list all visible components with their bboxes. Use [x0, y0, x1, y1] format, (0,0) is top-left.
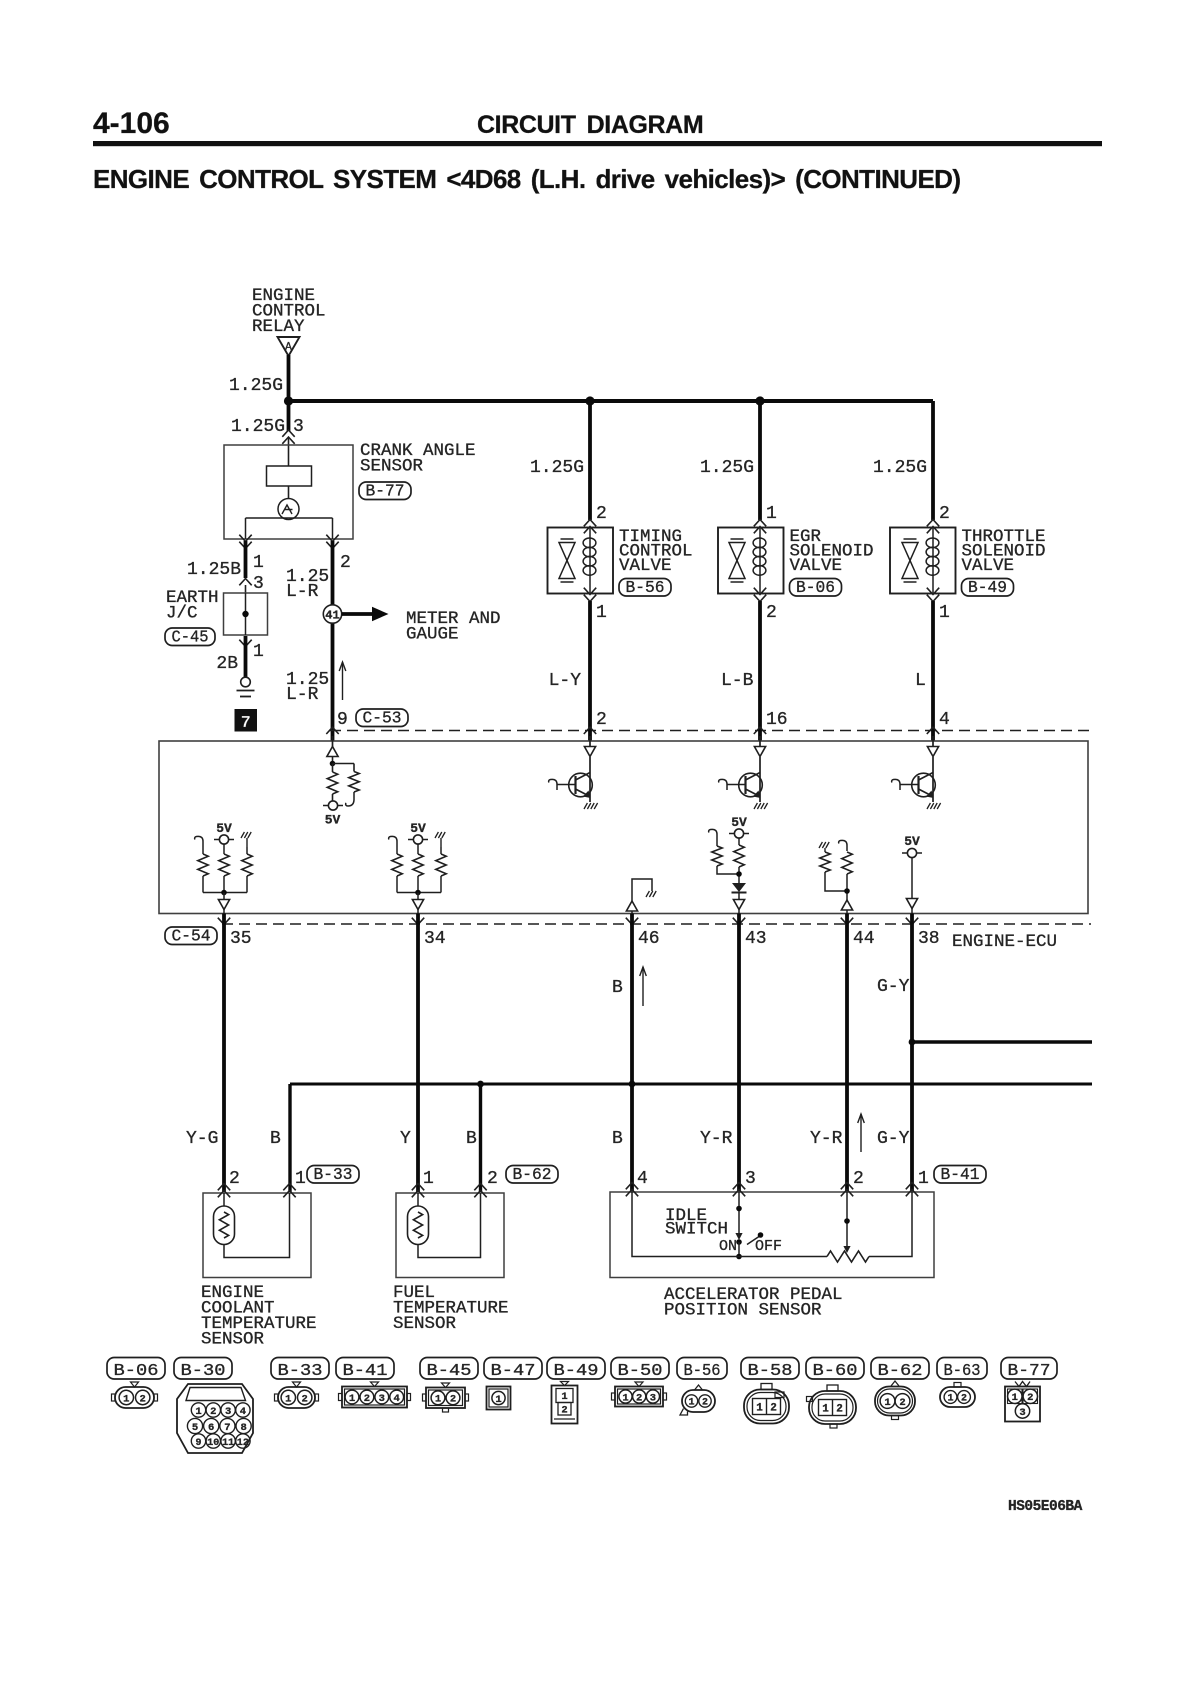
wire B to coolant sensor pin1: [288, 1084, 291, 1192]
svg-text:1: 1: [423, 1169, 434, 1189]
connector label B-56: [619, 579, 671, 597]
svg-text:B-30: B-30: [181, 1361, 226, 1380]
connector boundary C-53 dashed: [330, 730, 1091, 732]
wire crank sensor pin1 to earth J/C: [239, 542, 251, 549]
ECU pin 44 network: [819, 842, 822, 848]
wire ECU pin34 to fuel sensor pin1 Y: [416, 914, 420, 1193]
wiper: [846, 1192, 848, 1246]
connector boundary C-54 dashed: [222, 923, 1091, 925]
svg-text:10: 10: [207, 1438, 219, 1449]
svg-text:1: 1: [688, 1398, 694, 1409]
connector label B-41: [934, 1166, 986, 1184]
svg-text:2: 2: [596, 710, 607, 730]
wire B to fuel sensor pin2: [479, 1084, 482, 1192]
svg-text:3: 3: [1019, 1407, 1025, 1419]
svg-text:B-06: B-06: [796, 578, 835, 597]
numbered marker 7: [235, 709, 258, 732]
transistor Q3: [932, 757, 934, 802]
svg-text:VALVE: VALVE: [619, 556, 672, 576]
svg-text:5: 5: [192, 1422, 198, 1434]
svg-text:4: 4: [240, 1406, 246, 1418]
svg-text:2: 2: [229, 1169, 240, 1189]
svg-text:1: 1: [918, 1169, 929, 1189]
connector B-30: [174, 1358, 232, 1380]
svg-text:1: 1: [756, 1403, 763, 1415]
svg-text:4-106: 4-106: [93, 107, 170, 140]
wire THROTTLE valve to ECU pin 4: [931, 601, 935, 741]
svg-text:1: 1: [822, 1404, 829, 1416]
svg-text:5V: 5V: [216, 821, 232, 836]
svg-text:1.25G: 1.25G: [700, 458, 754, 478]
power bus wire: [287, 399, 933, 403]
svg-text:1: 1: [947, 1394, 953, 1405]
svg-text:1: 1: [349, 1393, 355, 1405]
svg-text:B: B: [466, 1129, 477, 1149]
connector label B-62: [506, 1166, 558, 1184]
svg-text:SENSOR: SENSOR: [360, 457, 424, 477]
svg-text:VALVE: VALVE: [790, 556, 843, 576]
wire crank sensor pin2 to ECU pin9: [326, 542, 338, 549]
connector chevrons: [927, 520, 939, 527]
svg-text:35: 35: [230, 929, 252, 949]
svg-text:GAUGE: GAUGE: [406, 625, 459, 645]
arrow up beside pin44 wire: [860, 1114, 862, 1152]
connector label B-06: [790, 579, 842, 597]
junction: [585, 396, 594, 405]
arrow up: [342, 662, 344, 700]
svg-text:VALVE: VALVE: [962, 556, 1015, 576]
svg-text:2: 2: [210, 1406, 216, 1418]
svg-text:4: 4: [394, 1393, 400, 1405]
svg-text:2: 2: [487, 1169, 498, 1189]
svg-text:B-06: B-06: [114, 1361, 159, 1380]
connector B-58: [741, 1358, 799, 1380]
ECU pin9 pull-up network: [327, 747, 338, 757]
svg-text:4: 4: [939, 710, 950, 730]
svg-text:B-49: B-49: [554, 1361, 599, 1380]
svg-text:B-45: B-45: [427, 1361, 472, 1380]
connector B-50: [611, 1358, 669, 1380]
resistors: [195, 836, 203, 847]
svg-text:OFF: OFF: [755, 1238, 782, 1255]
svg-text:44: 44: [853, 929, 875, 949]
svg-text:Y-R: Y-R: [810, 1129, 843, 1149]
connector B-33: [271, 1358, 329, 1380]
svg-text:1: 1: [195, 1406, 201, 1418]
svg-text:B: B: [612, 978, 623, 998]
wire into ECU from valve: [754, 747, 765, 757]
engine ECU box: [159, 741, 1088, 914]
wire ECU pin46 to accel sensor pin4 B: [630, 914, 634, 1193]
svg-text:4: 4: [637, 1169, 648, 1189]
junction: [755, 396, 764, 405]
ECU pin 46: [626, 918, 638, 925]
svg-text:3: 3: [745, 1169, 756, 1189]
svg-text:1.25G: 1.25G: [873, 458, 927, 478]
svg-text:Y-R: Y-R: [700, 1129, 733, 1149]
svg-text:1.25G: 1.25G: [231, 417, 285, 437]
svg-text:2: 2: [836, 1404, 843, 1416]
header rule: [93, 141, 1102, 146]
wire into ECU from valve: [584, 747, 595, 757]
svg-text:B-41: B-41: [941, 1165, 980, 1184]
junction: [284, 396, 293, 405]
connector B-49: [547, 1358, 605, 1380]
svg-text:2B: 2B: [216, 654, 238, 674]
ECU pin 43: [733, 918, 745, 925]
svg-text:C-45: C-45: [172, 627, 209, 646]
svg-text:1: 1: [435, 1394, 441, 1406]
connector chevrons: [584, 595, 596, 602]
ECU pin 46 ground stub: [632, 879, 652, 901]
svg-text:34: 34: [424, 929, 446, 949]
svg-text:B: B: [612, 1129, 623, 1149]
svg-text:3: 3: [225, 1406, 231, 1418]
svg-text:7: 7: [224, 1422, 230, 1434]
connector B-56: [677, 1358, 727, 1380]
svg-text:1: 1: [596, 603, 607, 623]
svg-text:L-B: L-B: [721, 671, 754, 691]
svg-text:6: 6: [208, 1422, 214, 1434]
svg-text:38: 38: [918, 929, 940, 949]
resistors: [389, 836, 397, 847]
svg-text:1: 1: [1012, 1392, 1018, 1404]
connector label B-49: [962, 579, 1014, 597]
connector chevrons: [754, 595, 766, 602]
svg-text:1: 1: [285, 1393, 291, 1405]
ECU pin 44: [841, 918, 853, 925]
wire into ECU from valve: [927, 747, 938, 757]
svg-text:5V: 5V: [731, 815, 747, 830]
svg-text:B-41: B-41: [343, 1361, 388, 1380]
ECU pin 34: [412, 918, 424, 925]
connector B-63: [937, 1358, 987, 1380]
connector chevrons: [584, 520, 596, 527]
connector B-41: [336, 1358, 394, 1380]
svg-text:1: 1: [123, 1393, 129, 1405]
svg-text:SWITCH: SWITCH: [665, 1220, 728, 1240]
svg-text:5V: 5V: [410, 821, 426, 836]
svg-text:C-54: C-54: [172, 926, 211, 945]
svg-text:SENSOR: SENSOR: [201, 1330, 265, 1350]
node 41 meter and gauge takeoff: [323, 605, 341, 623]
svg-text:9: 9: [195, 1438, 201, 1449]
wire TIMING valve to ECU pin 2: [588, 601, 592, 741]
svg-text:9: 9: [337, 710, 348, 730]
svg-text:2: 2: [770, 1403, 777, 1415]
potentiometer track: [632, 1192, 827, 1257]
svg-text:2: 2: [636, 1392, 642, 1404]
svg-text:B-62: B-62: [513, 1165, 552, 1184]
svg-text:B-47: B-47: [491, 1361, 536, 1380]
svg-text:1: 1: [253, 553, 264, 573]
svg-text:SENSOR: SENSOR: [393, 1314, 457, 1334]
TIMING CONTROL VALVE B-56: [548, 528, 614, 594]
engine coolant temperature sensor B-33: [203, 1193, 311, 1278]
wire bus to crank angle sensor pin 3: [287, 401, 291, 431]
svg-text:2: 2: [766, 603, 777, 623]
arrow up beside pin46 wire: [642, 967, 644, 1006]
connector label B-33: [307, 1166, 359, 1184]
EGR SOLENOID VALVE B-06: [718, 528, 784, 594]
svg-text:B-33: B-33: [314, 1165, 353, 1184]
svg-text:CIRCUIT DIAGRAM: CIRCUIT DIAGRAM: [477, 111, 703, 139]
svg-text:L-Y: L-Y: [549, 671, 582, 691]
svg-text:1.25B: 1.25B: [187, 560, 241, 580]
svg-text:1.25G: 1.25G: [229, 376, 283, 396]
svg-text:B-63: B-63: [944, 1361, 981, 1380]
svg-text:2: 2: [702, 1398, 708, 1409]
svg-text:12: 12: [237, 1438, 249, 1449]
svg-text:1.25G: 1.25G: [530, 458, 584, 478]
wire EGR valve to ECU pin 16: [758, 601, 762, 741]
svg-text:7: 7: [241, 714, 251, 733]
fuel temperature sensor B-62: [396, 1193, 504, 1278]
svg-text:L: L: [915, 671, 926, 691]
connector label C-54: [165, 927, 217, 945]
svg-text:1: 1: [561, 1391, 567, 1403]
svg-text:L-R: L-R: [286, 582, 319, 602]
svg-text:2: 2: [561, 1405, 567, 1417]
svg-text:G-Y: G-Y: [877, 1129, 910, 1149]
svg-text:B-49: B-49: [968, 578, 1007, 597]
G-Y branch wire to right: [912, 1040, 1092, 1043]
connector B-77: [1001, 1358, 1057, 1380]
svg-text:B-33: B-33: [278, 1361, 323, 1380]
svg-text:5V: 5V: [325, 813, 341, 828]
B sensor-ground bus wire: [290, 1083, 1092, 1086]
svg-text:2: 2: [340, 553, 351, 573]
connector B-60: [806, 1358, 864, 1380]
svg-text:ENGINE CONTROL SYSTEM <4D68 (L: ENGINE CONTROL SYSTEM <4D68 (L.H. drive …: [93, 164, 960, 194]
connector B-62: [871, 1358, 929, 1380]
svg-text:2: 2: [302, 1393, 308, 1405]
wire earth J/C to ground: [239, 640, 251, 647]
wire bus to THROTTLE valve: [931, 401, 935, 520]
wire bus to TIMING valve: [588, 401, 592, 520]
svg-text:A: A: [285, 341, 292, 354]
svg-text:1: 1: [295, 1169, 306, 1189]
svg-text:1: 1: [622, 1392, 628, 1404]
svg-text:B: B: [270, 1129, 281, 1149]
connector label C-53: [356, 709, 408, 727]
connector B-06: [107, 1358, 165, 1380]
svg-text:3: 3: [379, 1393, 385, 1405]
svg-text:46: 46: [638, 929, 660, 949]
svg-text:2: 2: [364, 1393, 370, 1405]
wire relay to bus: [287, 355, 291, 403]
svg-text:1: 1: [884, 1397, 890, 1409]
ECU pin 38: [906, 918, 918, 925]
svg-text:2: 2: [939, 504, 950, 524]
transistor Q2: [759, 757, 761, 802]
svg-text:B-60: B-60: [813, 1361, 858, 1380]
wire ECU pin35 to coolant sensor pin2 Y-G: [222, 914, 226, 1193]
svg-text:B-58: B-58: [748, 1361, 793, 1380]
svg-text:J/C: J/C: [166, 604, 198, 624]
svg-text:G-Y: G-Y: [877, 977, 910, 997]
connector B-47: [484, 1358, 542, 1380]
svg-text:8: 8: [240, 1422, 246, 1434]
svg-text:2: 2: [961, 1394, 967, 1405]
svg-text:ON: ON: [719, 1238, 737, 1255]
svg-text:HS05E06BA: HS05E06BA: [1008, 1499, 1083, 1515]
wire ECU pin38 to accel sensor pin1 G-Y: [910, 914, 914, 1193]
THROTTLE SOLENOID VALVE B-49: [890, 528, 956, 594]
svg-text:3: 3: [650, 1392, 656, 1404]
ECU pin 35: [218, 918, 230, 925]
svg-text:2: 2: [899, 1397, 905, 1409]
connector B-45: [420, 1358, 478, 1380]
node A relay terminal: [278, 337, 300, 356]
svg-text:3: 3: [293, 417, 304, 437]
svg-text:POSITION SENSOR: POSITION SENSOR: [664, 1301, 822, 1321]
svg-text:43: 43: [745, 929, 767, 949]
svg-text:B-62: B-62: [878, 1361, 923, 1380]
svg-text:B-77: B-77: [366, 481, 405, 500]
svg-text:2: 2: [450, 1394, 456, 1406]
svg-text:1: 1: [939, 603, 950, 623]
accelerator pedal position sensor B-41: [610, 1192, 934, 1278]
svg-text:16: 16: [766, 710, 788, 730]
svg-text:41: 41: [325, 609, 339, 623]
svg-text:5V: 5V: [904, 834, 920, 849]
connector label B-77: [359, 482, 411, 500]
svg-text:3: 3: [253, 574, 264, 594]
svg-text:B-56: B-56: [626, 578, 665, 597]
svg-text:2: 2: [853, 1169, 864, 1189]
svg-text:2: 2: [1027, 1392, 1033, 1404]
svg-text:B-50: B-50: [618, 1361, 663, 1380]
svg-text:1: 1: [253, 642, 264, 662]
svg-text:Y-G: Y-G: [186, 1129, 218, 1149]
connector chevrons: [754, 520, 766, 527]
svg-text:L-R: L-R: [286, 685, 319, 705]
svg-text:1: 1: [766, 504, 777, 524]
svg-text:Y: Y: [400, 1129, 411, 1149]
earth J/C C-45: [224, 593, 268, 635]
svg-text:2: 2: [140, 1393, 146, 1405]
wire bus to EGR valve: [758, 401, 762, 520]
svg-text:ENGINE-ECU: ENGINE-ECU: [952, 932, 1057, 952]
svg-text:B-56: B-56: [684, 1361, 721, 1380]
svg-text:B-77: B-77: [1008, 1361, 1051, 1380]
svg-text:C-53: C-53: [363, 708, 402, 727]
svg-text:2: 2: [596, 504, 607, 524]
svg-text:1: 1: [495, 1394, 501, 1406]
crank angle sensor B-77: [224, 445, 353, 539]
wire ECU pin43 to accel sensor pin3 Y-R: [737, 914, 741, 1193]
ground: [241, 677, 251, 687]
connector chevrons: [927, 595, 939, 602]
svg-text:11: 11: [222, 1438, 234, 1449]
svg-text:RELAY: RELAY: [252, 317, 305, 337]
connector label C-45: [165, 628, 215, 646]
wire ECU pin44 to accel sensor pin2 Y-R: [845, 914, 849, 1193]
transistor Q1: [589, 757, 591, 802]
